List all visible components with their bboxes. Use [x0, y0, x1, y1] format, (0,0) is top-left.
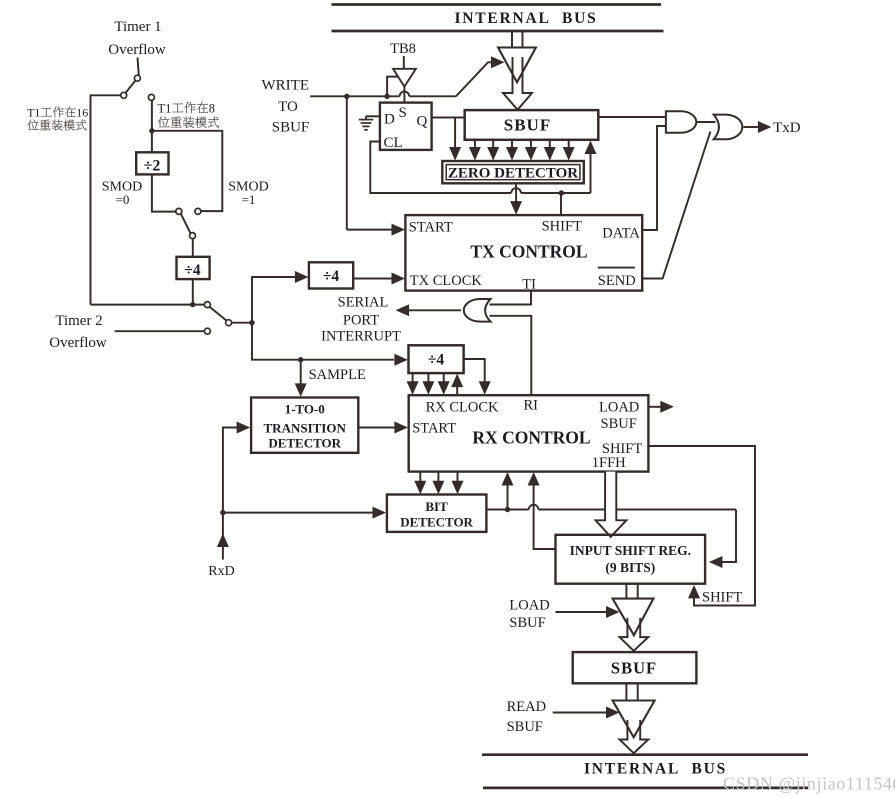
svg-text:÷2: ÷2	[144, 158, 161, 175]
node INTERNAL BUS (bottom) upper rail	[482, 753, 808, 756]
svg-text:DETECTOR: DETECTOR	[268, 436, 341, 451]
controller TX CONTROL box	[405, 215, 642, 291]
svg-text:Timer 2: Timer 2	[55, 313, 102, 329]
label START (tx)	[409, 220, 453, 236]
svg-text:TO: TO	[278, 99, 298, 115]
svg-text:CL: CL	[384, 135, 403, 151]
wire 8-bit contact down to smod node	[151, 100, 153, 130]
wire CL input from shift line	[370, 142, 511, 194]
switch SW3 contact timer1-path	[204, 302, 210, 308]
label SEND with overline	[598, 268, 636, 289]
wire Q output to SBUF input	[432, 117, 465, 119]
label INPUT SHIFT REG (9 BITS)	[570, 543, 691, 575]
wire rxd input stub	[217, 513, 229, 560]
wire 16-bit contact to left rail	[91, 95, 121, 304]
label SHIFT (tx)	[542, 218, 582, 234]
wire double shaft SBUF to read buffer	[626, 683, 637, 700]
node junction shift/sbuf-up line	[559, 190, 564, 195]
svg-text:RI: RI	[524, 398, 539, 414]
switch SW1 contact 8-bit mode	[148, 94, 154, 100]
label SMOD=1	[228, 180, 268, 208]
svg-text:÷4: ÷4	[428, 352, 445, 369]
wire OR output to TxD	[743, 121, 771, 133]
svg-text:SERIAL: SERIAL	[338, 294, 389, 310]
svg-text:START: START	[409, 220, 453, 236]
divider ÷4 (rx clock) box	[409, 345, 464, 373]
svg-text:LOAD: LOAD	[599, 400, 639, 416]
register SBUF (receive buffer)	[573, 652, 697, 683]
svg-text:1-TO-0: 1-TO-0	[285, 402, 325, 417]
label SHIFT (loop)	[702, 590, 742, 606]
switch SW1 pole contact (timer1)	[134, 75, 140, 81]
or-gate U5 (TxD combiner)	[714, 115, 743, 140]
wire shift register feedback to RX CONTROL (crosses bitdet line)	[528, 472, 556, 549]
wire TI down to interrupt OR gate	[490, 291, 532, 305]
wire timer 2 overflow to contact	[115, 330, 205, 332]
detector ZERO DETECTOR box	[442, 161, 584, 183]
label RxD	[208, 564, 234, 579]
wire trunk up to tx ÷4	[252, 277, 295, 323]
label RI	[524, 398, 539, 414]
svg-text:RX CONTROL: RX CONTROL	[472, 428, 590, 448]
register SBUF (transmit buffer)	[465, 110, 599, 140]
node INTERNAL BUS (bottom) lower rail	[483, 787, 808, 790]
svg-text:TRANSITION: TRANSITION	[264, 421, 347, 436]
wire smod=1 branch	[152, 131, 222, 211]
svg-text:1FFH: 1FFH	[592, 455, 626, 471]
svg-text:SAMPLE: SAMPLE	[309, 367, 366, 383]
node junction bitdet/rx feedback	[505, 507, 510, 512]
label Timer 2 Overflow	[49, 313, 107, 351]
wire left rail to timer select node	[91, 304, 205, 306]
svg-text:DATA: DATA	[602, 225, 640, 241]
label DATA	[602, 225, 640, 241]
hollow arrow through load buffer into SBUF	[620, 618, 649, 651]
label LOAD SBUF (rx)	[509, 598, 549, 632]
label SBUF (rx load)	[601, 416, 637, 432]
svg-text:TX CLOCK: TX CLOCK	[410, 273, 483, 289]
svg-text:(9 BITS): (9 BITS)	[605, 560, 655, 575]
wire timer1 overflow to switch pole	[138, 58, 139, 76]
ground symbol at D input	[359, 116, 373, 130]
wire write line diagonal to buffer U1 enable	[456, 56, 505, 96]
svg-text:÷4: ÷4	[184, 262, 201, 279]
label TxD	[773, 120, 801, 136]
label ÷2	[144, 158, 161, 175]
wire bit detector output run (hops over isr loop)	[486, 505, 736, 510]
wire sample line to rx ÷4	[301, 354, 408, 366]
label D	[384, 112, 395, 128]
switch SW1 contact 16-bit mode	[121, 92, 127, 98]
wire sample down to 1-to-0 detector	[295, 360, 307, 397]
wire TB8 to buffer U2	[403, 56, 405, 69]
label 1FFH	[592, 455, 626, 471]
label ÷4 (baud)	[184, 262, 201, 279]
switch SW3 contact timer2-path	[204, 328, 210, 334]
svg-text:WRITE: WRITE	[262, 78, 309, 94]
svg-text:CSDN @jinjiao111540: CSDN @jinjiao111540	[723, 774, 895, 794]
svg-text:SBUF: SBUF	[509, 615, 545, 631]
label TX CONTROL	[470, 242, 587, 262]
switch SW1 arm (16-bit position)	[126, 81, 136, 93]
wire ÷4 down to timer select node	[192, 279, 194, 305]
wire shift line up into SBUF	[585, 141, 597, 194]
node junction rxd	[220, 510, 225, 515]
switch SW2 arm	[181, 214, 191, 233]
svg-text:TxD: TxD	[773, 120, 801, 136]
wire bit detector feedback up to RX CONTROL	[502, 472, 514, 510]
svg-text:Overflow: Overflow	[108, 42, 166, 58]
label RI (wire label)	[0, 0, 1, 1]
wire trunk down to sample node	[252, 323, 301, 360]
wires RX CONTROL to bit detector	[414, 472, 463, 495]
node junction trunk/switch	[249, 320, 254, 325]
wire shift horizontal segment right of hop	[521, 192, 591, 194]
label CL	[384, 135, 403, 151]
hollow arrow RX CONTROL to input shift register	[596, 472, 627, 537]
svg-text:START: START	[412, 421, 456, 437]
label Timer 1 Overflow	[108, 19, 166, 58]
detector BIT DETECTOR box	[387, 495, 487, 532]
svg-text:SBUF: SBUF	[272, 120, 310, 136]
switch SW3 arm	[210, 307, 227, 320]
label BIT DETECTOR	[400, 499, 473, 530]
wire rxd to bit detector (hops over shift-reg loop)	[223, 507, 386, 519]
label T1 8-bit reload mode (chinese)	[158, 101, 219, 128]
svg-text:RxD: RxD	[208, 564, 234, 579]
svg-text:SBUF: SBUF	[611, 659, 657, 678]
wire double shaft from internal bus into write buffer	[512, 31, 523, 48]
label SBUF (tx)	[504, 116, 551, 135]
or-gate U6 (serial port interrupt)	[464, 299, 491, 322]
label S	[399, 105, 407, 121]
wire bit detector line down into shift register	[709, 510, 736, 569]
svg-text:T1: T1	[158, 101, 172, 115]
wire ÷2 to smod=0 contact	[152, 174, 176, 211]
wire TX shift output up to shift line	[560, 193, 562, 215]
label SAMPLE	[309, 367, 366, 383]
svg-text:Overflow: Overflow	[49, 335, 107, 351]
wire junction down to ÷2	[151, 131, 153, 153]
wire SHIFT output loop to input shift register	[648, 446, 755, 606]
watermark	[723, 774, 895, 794]
hollow arrow through read buffer onto bus	[620, 720, 649, 753]
divider ÷4 (tx clock) box	[309, 262, 353, 288]
svg-text:BIT: BIT	[425, 499, 448, 514]
svg-text:SBUF: SBUF	[507, 719, 543, 735]
label SMOD=0	[102, 180, 142, 208]
label TB8	[390, 41, 416, 57]
wire 1-to-0 detector to RX START	[358, 422, 408, 434]
switch SW2 contact smod=1	[195, 208, 201, 214]
label START (rx)	[412, 421, 456, 437]
label RX CONTROL	[472, 428, 590, 448]
svg-text:÷4: ÷4	[323, 268, 340, 285]
buffer U1 (write to SBUF, tri-state)	[498, 48, 536, 83]
svg-text:PORT: PORT	[343, 313, 379, 329]
and-gate U4 (SBUF data gate)	[666, 111, 696, 132]
wire read sbuf to buffer U8	[553, 707, 620, 719]
switch SW2 contact smod=0	[176, 208, 182, 214]
node junction timer select	[190, 302, 195, 307]
wire AND to OR	[696, 121, 715, 123]
node junction smod branch	[149, 128, 154, 133]
wire ground to D input	[366, 115, 380, 117]
node junction write/TB8-enable	[384, 94, 389, 99]
wire SBUF output to AND gate	[598, 116, 666, 118]
wire START input from write line	[347, 96, 405, 235]
svg-text:INTERRUPT: INTERRUPT	[321, 329, 401, 345]
wire RI up to interrupt OR gate	[490, 316, 532, 395]
svg-text:INTERNAL BUS: INTERNAL BUS	[454, 10, 597, 27]
wire tx ÷4 to TX CLOCK	[353, 273, 405, 285]
detector 1-TO-0 TRANSITION DETECTOR box	[251, 398, 358, 453]
wire WRITE TO SBUF horizontal run (hops over S line)	[310, 91, 456, 96]
svg-text:SBUF: SBUF	[504, 116, 551, 135]
hollow arrow through write buffer into SBUF	[503, 57, 532, 110]
label TX CLOCK	[410, 273, 483, 289]
wire Q branch down to zero detector	[449, 118, 461, 161]
svg-text:TX CONTROL: TX CONTROL	[470, 242, 587, 262]
label ÷4 (tx)	[323, 268, 340, 285]
label READ SBUF	[507, 699, 546, 735]
svg-text:16: 16	[76, 106, 88, 120]
label INTERNAL BUS (top)	[454, 10, 597, 27]
label ZERO DETECTOR	[448, 166, 578, 182]
label ÷4 (rx)	[428, 352, 445, 369]
svg-text:ZERO DETECTOR: ZERO DETECTOR	[448, 166, 578, 182]
svg-text:=1: =1	[242, 192, 256, 207]
svg-text:SBUF: SBUF	[601, 416, 637, 432]
wire U2 output to flip-flop S input	[403, 87, 405, 103]
switch SW2 pole contact	[190, 233, 196, 239]
svg-text:SHIFT: SHIFT	[702, 590, 742, 606]
wire SW3 pole to trunk	[232, 322, 252, 324]
label T1 16-bit reload mode (chinese)	[27, 106, 88, 131]
label INTERNAL BUS (bottom)	[584, 761, 727, 778]
label SHIFT (rx)	[602, 441, 642, 457]
label SBUF (rx)	[611, 659, 657, 678]
label Q	[417, 114, 428, 130]
svg-text:READ: READ	[507, 699, 546, 715]
wires SBUF bits down to zero detector	[469, 140, 575, 161]
node junction write/start	[344, 94, 349, 99]
svg-text:SHIFT: SHIFT	[542, 218, 582, 234]
wires rx ÷4 phase taps to RX CONTROL	[407, 373, 464, 395]
label LOAD (rx)	[599, 400, 639, 416]
wire smod pole to ÷4	[192, 239, 194, 257]
register INPUT SHIFT REG box	[556, 535, 706, 584]
svg-text:DETECTOR: DETECTOR	[400, 515, 473, 530]
svg-text:INTERNAL BUS: INTERNAL BUS	[584, 761, 727, 778]
buffer U7 (load SBUF)	[613, 599, 654, 636]
controller RX CONTROL box	[409, 395, 649, 471]
flip-flop U3 box (D S Q CL)	[380, 103, 432, 150]
label WRITE TO SBUF	[262, 78, 310, 136]
svg-text:=0: =0	[116, 192, 130, 207]
svg-text:8: 8	[209, 101, 215, 115]
buffer U8 (read SBUF)	[613, 701, 655, 738]
svg-text:LOAD: LOAD	[509, 598, 549, 614]
divider ÷2 box	[136, 152, 168, 174]
label SERIAL PORT INTERRUPT	[321, 294, 401, 344]
wire SEND output to output OR gate	[642, 132, 710, 279]
svg-text:TI: TI	[522, 276, 536, 292]
hop zero-detector output over shift line	[511, 188, 521, 193]
node junction sample	[298, 357, 303, 362]
wire write-enable to U2	[387, 77, 399, 97]
svg-text:D: D	[384, 112, 395, 128]
wire rx ÷4 output to RX CONTROL	[464, 359, 491, 395]
buffer U2 (TB8 tri-state)	[393, 69, 416, 87]
wire double shaft shift-reg to load buffer	[626, 584, 637, 599]
svg-text:Timer 1: Timer 1	[114, 19, 161, 35]
wire trunk to tx ÷4	[295, 271, 309, 283]
node INTERNAL BUS (top) lower rail	[332, 30, 664, 33]
wire load sbuf to buffer U7	[556, 606, 620, 618]
wire rxd to 1-to-0 detector	[223, 422, 250, 513]
svg-text:RX CLOCK: RX CLOCK	[426, 400, 499, 416]
svg-text:TB8: TB8	[390, 41, 416, 57]
wire LOAD SBUF output	[648, 401, 673, 413]
svg-text:Q: Q	[417, 114, 428, 130]
svg-text:S: S	[399, 105, 407, 121]
divider ÷4 (baud) box	[177, 257, 210, 279]
label 1-TO-0 TRANSITION DETECTOR	[264, 402, 347, 451]
node INTERNAL BUS (top) upper rail	[332, 3, 662, 6]
switch SW3 pole contact	[226, 320, 232, 326]
svg-text:SEND: SEND	[598, 273, 636, 289]
svg-text:T1: T1	[27, 106, 40, 120]
wire zero detector output to TX CONTROL	[510, 183, 522, 214]
label TI	[522, 276, 536, 292]
wire DATA output to AND gate	[642, 126, 666, 230]
svg-text:INPUT SHIFT REG.: INPUT SHIFT REG.	[570, 543, 691, 558]
label RX CLOCK	[426, 400, 499, 416]
wire interrupt OR output arrow	[396, 304, 461, 316]
